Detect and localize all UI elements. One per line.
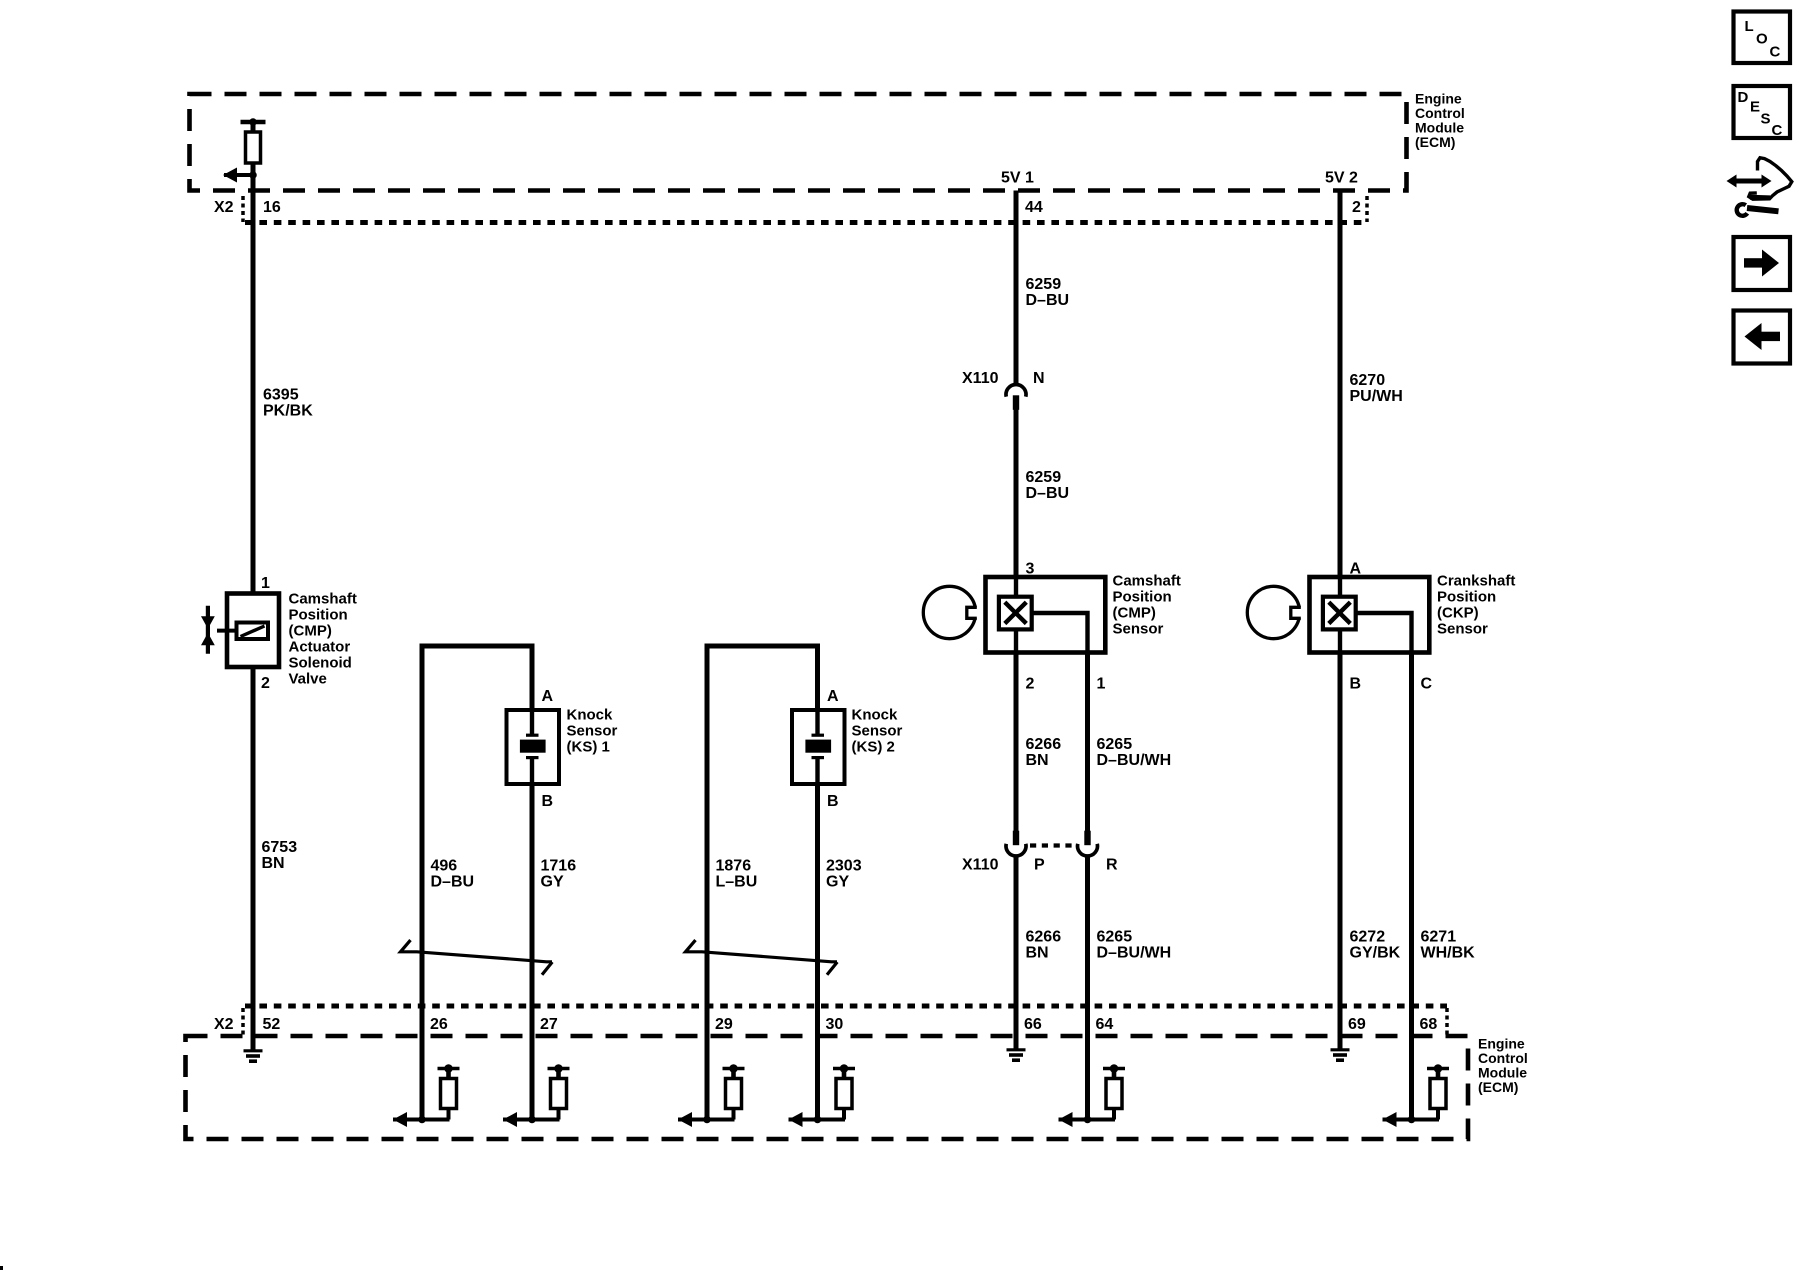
connector row dotted line (bottom) xyxy=(245,1004,1447,1009)
svg-text:B: B xyxy=(1350,676,1362,693)
svg-text:496: 496 xyxy=(431,858,458,875)
internal circuit pin 30 xyxy=(789,1064,856,1127)
pin 30 label xyxy=(826,1016,844,1033)
svg-text:R: R xyxy=(1106,857,1118,874)
svg-text:6265: 6265 xyxy=(1097,929,1133,946)
pin 1 label (solenoid) xyxy=(261,575,270,592)
inline connector X110 cavity P xyxy=(1006,831,1026,856)
label wire 2303 GY xyxy=(826,858,862,891)
svg-text:(CKP): (CKP) xyxy=(1437,605,1479,622)
svg-text:26: 26 xyxy=(430,1016,448,1033)
wire 1876 L-BU (KS2 pin A loop) xyxy=(707,646,818,1120)
svg-text:D–BU/WH: D–BU/WH xyxy=(1097,945,1172,962)
svg-text:2: 2 xyxy=(261,675,270,692)
icon adjust (double arrow, outline, wrench) xyxy=(1727,158,1792,216)
svg-text:44: 44 xyxy=(1025,199,1043,216)
svg-text:Sensor: Sensor xyxy=(1113,621,1164,638)
label wire 1876 L-BU xyxy=(716,858,758,891)
svg-text:PU/WH: PU/WH xyxy=(1350,388,1403,405)
svg-text:6753: 6753 xyxy=(262,839,298,856)
CKP sensor xyxy=(1247,577,1429,653)
svg-text:X110: X110 xyxy=(962,370,999,387)
svg-text:D–BU: D–BU xyxy=(431,874,475,891)
svg-text:BN: BN xyxy=(1026,945,1049,962)
CMP sensor xyxy=(923,577,1105,653)
svg-text:E: E xyxy=(1750,99,1760,116)
svg-text:6266: 6266 xyxy=(1026,736,1062,753)
knock sensor KS1 label xyxy=(567,707,618,756)
svg-text:A: A xyxy=(542,688,554,705)
internal circuit pin 29 xyxy=(678,1064,745,1127)
internal circuit pin 68 xyxy=(1383,1064,1450,1127)
svg-text:L–BU: L–BU xyxy=(716,874,758,891)
wire 6272 GY/BK xyxy=(1338,653,1343,1049)
svg-text:1: 1 xyxy=(1097,676,1106,693)
svg-text:6259: 6259 xyxy=(1026,276,1062,293)
svg-text:69: 69 xyxy=(1348,1016,1366,1033)
svg-text:6266: 6266 xyxy=(1026,929,1062,946)
svg-text:D–BU: D–BU xyxy=(1026,485,1070,502)
separator right of pin 2 xyxy=(1365,196,1369,222)
svg-text:L: L xyxy=(1745,18,1754,35)
ground at pin 69 xyxy=(1331,1050,1350,1060)
svg-text:X110: X110 xyxy=(962,857,999,874)
separator right of pin 68 xyxy=(1445,1008,1449,1035)
wire 6270 PU/WH xyxy=(1338,191,1343,580)
wire 1716 GY xyxy=(530,784,535,1120)
svg-text:6265: 6265 xyxy=(1097,736,1133,753)
knock sensor KS2 xyxy=(792,710,845,784)
pin 1 label (CMP) xyxy=(1097,676,1106,693)
pin 3 label xyxy=(1026,561,1035,578)
twisted pair mark KS2 xyxy=(686,940,838,975)
separator X2 (bottom) xyxy=(241,1008,245,1035)
label wire 6266 BN (lower) xyxy=(1026,929,1062,962)
svg-text:6395: 6395 xyxy=(263,387,299,404)
label wire 6265 D-BU/WH (upper) xyxy=(1097,736,1172,769)
label wire 6266 BN (upper) xyxy=(1026,736,1062,769)
svg-text:P: P xyxy=(1034,857,1045,874)
svg-text:2: 2 xyxy=(1352,199,1361,216)
pin 2 label (top right) xyxy=(1352,199,1361,216)
wire 6271 WH/BK xyxy=(1409,653,1414,1120)
CMP actuator solenoid valve xyxy=(201,594,279,668)
ECM bottom dashed box xyxy=(186,1036,1469,1139)
wire 6265 D-BU/WH (lower) xyxy=(1085,857,1090,1120)
separator X2 (top) xyxy=(241,196,245,222)
svg-text:29: 29 xyxy=(715,1016,733,1033)
svg-text:B: B xyxy=(827,793,839,810)
5V 2 label xyxy=(1325,170,1358,187)
wire 6753 BN xyxy=(251,666,256,1050)
connector X110 label (bottom) xyxy=(962,857,999,874)
tie line between X110 cavities xyxy=(1030,843,1074,847)
pin B label (CKP) xyxy=(1350,676,1362,693)
svg-text:6259: 6259 xyxy=(1026,469,1062,486)
svg-text:Camshaft: Camshaft xyxy=(1113,573,1181,590)
pin 29 label xyxy=(715,1016,733,1033)
svg-text:Sensor: Sensor xyxy=(852,723,903,740)
svg-text:(KS) 1: (KS) 1 xyxy=(567,739,610,756)
pin 44 label xyxy=(1025,199,1043,216)
svg-text:X2: X2 xyxy=(214,199,234,216)
svg-text:O: O xyxy=(1756,31,1768,48)
wire 6266 BN (lower) xyxy=(1014,857,1019,1049)
knock sensor KS1 xyxy=(507,710,560,784)
svg-text:S: S xyxy=(1761,111,1771,128)
svg-text:(CMP): (CMP) xyxy=(1113,605,1156,622)
icon back arrow box xyxy=(1734,311,1791,364)
label wire 6395 PK/BK xyxy=(263,387,313,420)
icon forward arrow box xyxy=(1734,237,1791,290)
twisted pair mark KS1 xyxy=(401,940,553,975)
svg-text:27: 27 xyxy=(540,1016,558,1033)
pin A label KS2 xyxy=(827,688,839,705)
svg-text:GY: GY xyxy=(541,874,564,891)
svg-text:30: 30 xyxy=(826,1016,844,1033)
svg-text:D–BU: D–BU xyxy=(1026,292,1070,309)
internal circuit pin 26 xyxy=(393,1064,460,1127)
label wire 6272 GY/BK xyxy=(1350,929,1401,962)
CMP sensor label xyxy=(1113,573,1181,638)
svg-text:C: C xyxy=(1772,122,1783,139)
svg-text:1876: 1876 xyxy=(716,858,752,875)
5V 1 label xyxy=(1001,170,1034,187)
svg-text:Position: Position xyxy=(1437,589,1496,606)
wire 6259 D-BU (upper) xyxy=(1014,191,1019,385)
pin 66 label xyxy=(1024,1016,1042,1033)
driver resistor inside ECM (pin 16) xyxy=(241,118,266,163)
label wire 6265 D-BU/WH (lower) xyxy=(1097,929,1172,962)
pin 64 label xyxy=(1096,1016,1114,1033)
svg-text:68: 68 xyxy=(1420,1016,1438,1033)
connector X2 label (bottom) xyxy=(214,1016,234,1033)
CMP actuator solenoid valve label xyxy=(289,591,357,688)
wire 6265 D-BU/WH (upper) xyxy=(1085,653,1090,832)
svg-text:GY/BK: GY/BK xyxy=(1350,945,1401,962)
svg-text:C: C xyxy=(1421,676,1433,693)
knock sensor KS2 label xyxy=(852,707,903,756)
connector row dotted line (top) xyxy=(245,220,1367,225)
svg-text:(CMP): (CMP) xyxy=(289,623,332,640)
wire 6259 D-BU (lower) xyxy=(1014,409,1019,579)
pin 2 label (solenoid) xyxy=(261,675,270,692)
svg-text:16: 16 xyxy=(263,199,281,216)
pin B label KS2 xyxy=(827,793,839,810)
svg-text:BN: BN xyxy=(262,855,285,872)
svg-text:BN: BN xyxy=(1026,752,1049,769)
label wire 1716 GY xyxy=(541,858,577,891)
label wire 6259 D-BU (lower) xyxy=(1026,469,1070,502)
svg-text:Knock: Knock xyxy=(852,707,899,724)
pin 68 label xyxy=(1420,1016,1438,1033)
svg-text:2303: 2303 xyxy=(826,858,862,875)
svg-text:X2: X2 xyxy=(214,1016,234,1033)
svg-text:B: B xyxy=(542,793,554,810)
cavity N label xyxy=(1033,370,1045,387)
svg-text:1716: 1716 xyxy=(541,858,577,875)
label wire 6259 D-BU (upper) xyxy=(1026,276,1070,309)
svg-text:A: A xyxy=(827,688,839,705)
pin B label KS1 xyxy=(542,793,554,810)
svg-text:6270: 6270 xyxy=(1350,372,1386,389)
svg-text:C: C xyxy=(1770,44,1781,61)
label wire 6270 PU/WH xyxy=(1350,372,1403,405)
pin C label (CKP) xyxy=(1421,676,1433,693)
cavity R label xyxy=(1106,857,1118,874)
pin 27 label xyxy=(540,1016,558,1033)
svg-text:66: 66 xyxy=(1024,1016,1042,1033)
svg-text:D: D xyxy=(1738,89,1749,106)
svg-text:Sensor: Sensor xyxy=(567,723,618,740)
svg-text:N: N xyxy=(1033,370,1045,387)
svg-text:WH/BK: WH/BK xyxy=(1421,945,1476,962)
ECM top label xyxy=(1415,91,1465,151)
wire 6266 BN (upper) xyxy=(1014,653,1019,832)
pin 2 label (CMP) xyxy=(1026,676,1035,693)
label wire 6271 WH/BK xyxy=(1421,929,1476,962)
label wire 6753 BN xyxy=(262,839,298,872)
svg-text:GY: GY xyxy=(826,874,849,891)
icon LOC box xyxy=(1734,12,1791,64)
svg-text:(ECM): (ECM) xyxy=(1415,134,1455,150)
ECM bottom label xyxy=(1478,1036,1528,1096)
svg-text:6272: 6272 xyxy=(1350,929,1386,946)
page artifact dot xyxy=(0,1266,3,1270)
svg-text:Camshaft: Camshaft xyxy=(289,591,357,608)
wire 496 D-BU (KS1 pin A loop) xyxy=(422,646,532,1120)
svg-text:64: 64 xyxy=(1096,1016,1114,1033)
label wire 496 D-BU xyxy=(431,858,475,891)
internal circuit pin 64 xyxy=(1059,1064,1126,1127)
svg-text:Solenoid: Solenoid xyxy=(289,655,352,672)
svg-text:1: 1 xyxy=(261,575,270,592)
svg-text:D–BU/WH: D–BU/WH xyxy=(1097,752,1172,769)
internal circuit pin 27 xyxy=(503,1064,570,1127)
inline connector X110 cavity N xyxy=(1006,384,1026,409)
svg-text:52: 52 xyxy=(263,1016,281,1033)
ground at pin 52 xyxy=(244,1051,263,1061)
svg-text:Valve: Valve xyxy=(289,671,327,688)
pin 26 label xyxy=(430,1016,448,1033)
pin A label (CKP) xyxy=(1350,561,1362,578)
svg-text:Knock: Knock xyxy=(567,707,614,724)
pin 52 label xyxy=(263,1016,281,1033)
connector X110 label (top) xyxy=(962,370,999,387)
ECM top dashed box xyxy=(190,94,1407,191)
connector X2 label (top) xyxy=(214,199,234,216)
svg-text:(ECM): (ECM) xyxy=(1478,1079,1518,1095)
svg-text:(KS) 2: (KS) 2 xyxy=(852,739,895,756)
svg-text:6271: 6271 xyxy=(1421,929,1457,946)
output arrow at pin 16 xyxy=(223,168,257,183)
svg-text:PK/BK: PK/BK xyxy=(263,403,313,420)
svg-text:5V 1: 5V 1 xyxy=(1001,170,1034,187)
inline connector X110 cavity R xyxy=(1078,831,1098,856)
CKP sensor label xyxy=(1437,573,1515,638)
pin 16 label xyxy=(263,199,281,216)
pin A label KS1 xyxy=(542,688,554,705)
pin 69 label xyxy=(1348,1016,1366,1033)
svg-text:Position: Position xyxy=(1113,589,1172,606)
icon DESC box xyxy=(1734,86,1791,139)
svg-text:2: 2 xyxy=(1026,676,1035,693)
svg-text:Position: Position xyxy=(289,607,348,624)
svg-text:5V 2: 5V 2 xyxy=(1325,170,1358,187)
cavity P label xyxy=(1034,857,1045,874)
ground at pin 66 xyxy=(1007,1050,1026,1060)
svg-text:Sensor: Sensor xyxy=(1437,621,1488,638)
svg-text:Crankshaft: Crankshaft xyxy=(1437,573,1515,590)
svg-text:Actuator: Actuator xyxy=(289,639,351,656)
wire 2303 GY xyxy=(815,784,820,1120)
wire 6395 PK/BK xyxy=(251,122,256,595)
